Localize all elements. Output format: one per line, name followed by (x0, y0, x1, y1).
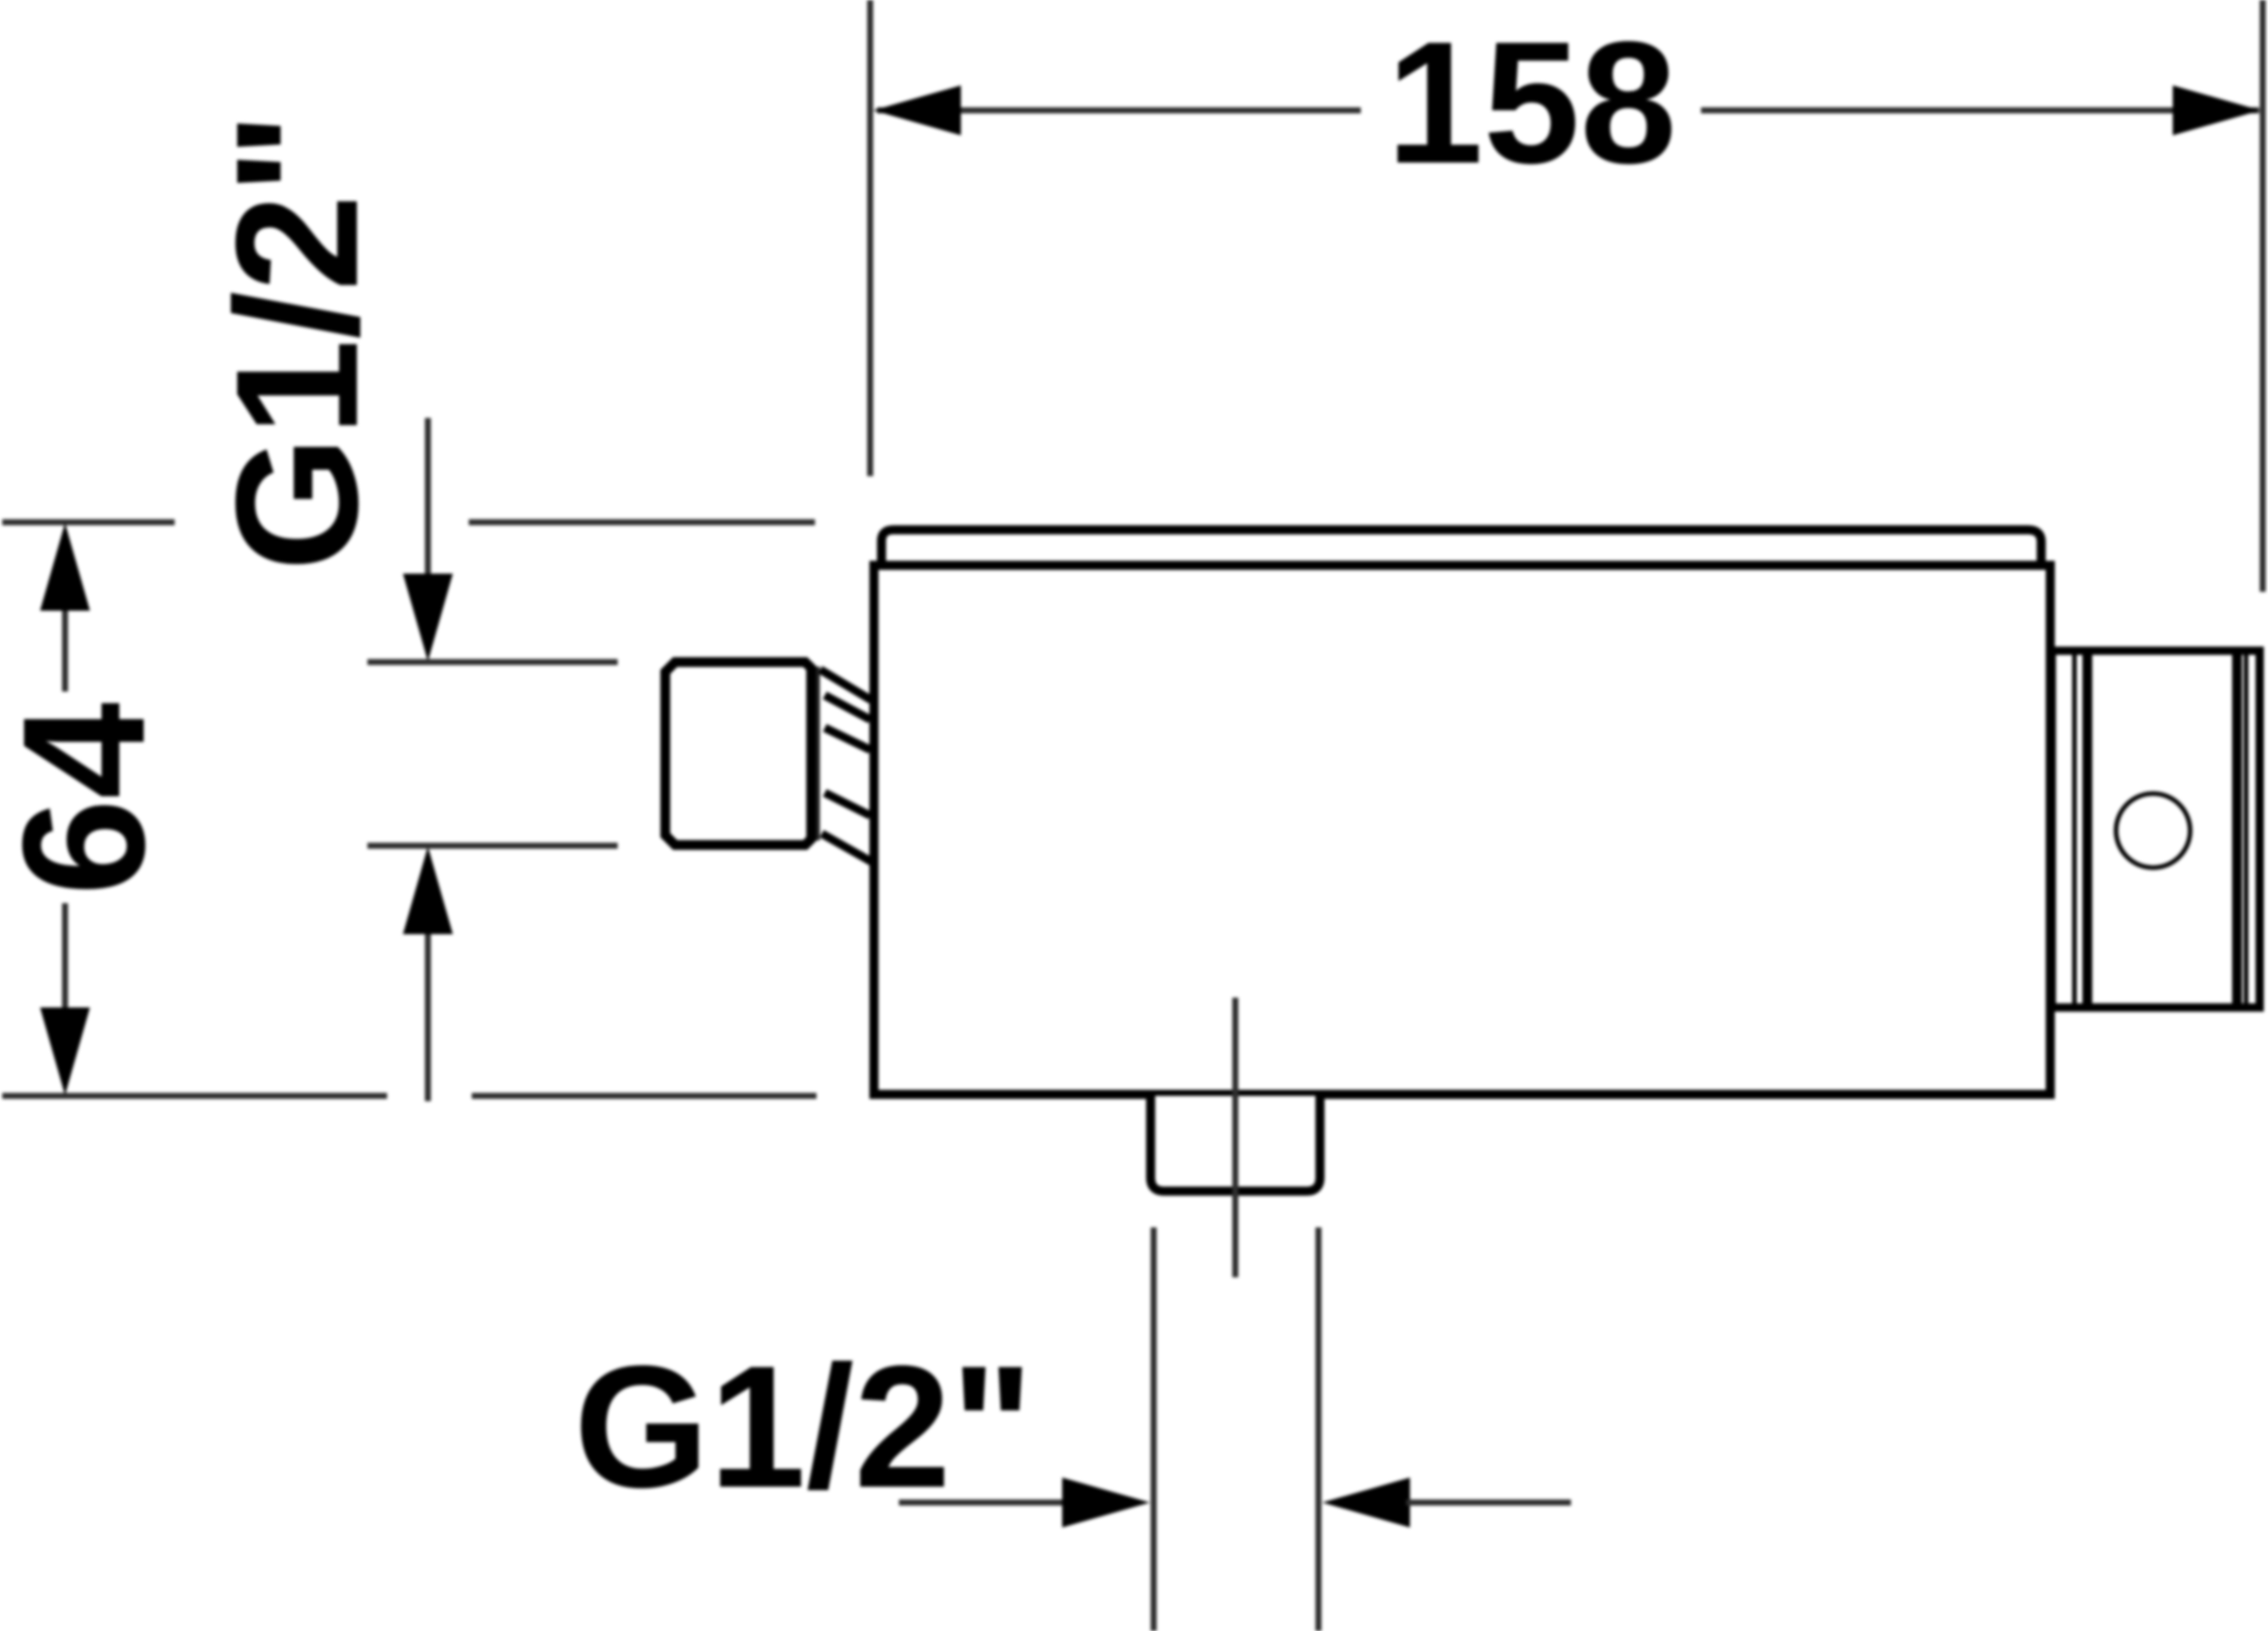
bottom G1/2 left extension line (1151, 1227, 1157, 1631)
dim 64 bottom arrowhead (40, 1007, 90, 1095)
dim 158 right arrowhead (2173, 85, 2260, 135)
outlet stub (1151, 1096, 1320, 1191)
dim 64 top extension line right segment (469, 519, 815, 525)
bottom G1/2 left arrowhead (1062, 1478, 1150, 1527)
outlet centerline (1232, 998, 1238, 1277)
svg-text:G1/2": G1/2" (200, 112, 394, 571)
dim 158 line right segment (1701, 107, 2259, 113)
svg-text:64: 64 (0, 702, 181, 896)
left G1/2 dim line upper segment (425, 418, 431, 578)
knob bottom extension line (367, 843, 618, 849)
svg-text:158: 158 (1387, 5, 1677, 200)
wall bracket outer rectangle (2052, 651, 2260, 1007)
knob outline (665, 662, 811, 845)
wall bracket right thick line (2232, 655, 2242, 1004)
knob top extension line (367, 659, 618, 665)
dim 64 bottom extension line left segment (2, 1093, 387, 1099)
bottom G1/2 right extension line (1315, 1227, 1321, 1631)
wall bracket right thin line (2244, 655, 2248, 1004)
wall bracket screw hole circle (2116, 794, 2190, 868)
thread rung 3 (825, 728, 870, 750)
knob collar thin line (816, 667, 820, 840)
svg-text:G1/2": G1/2" (574, 1329, 1033, 1524)
thread bottom diagonal (822, 834, 874, 863)
bottom G1/2 right arrowhead (1322, 1478, 1410, 1527)
bottom G1/2 right dim line (1406, 1499, 1571, 1506)
dim 158 left arrowhead (873, 85, 961, 135)
left G1/2 up arrowhead (403, 846, 453, 934)
body lid outline (881, 530, 2041, 567)
wall bracket left thick line (2083, 655, 2093, 1004)
dim 64 top extension line left segment (2, 519, 175, 525)
dim 64 line lower segment (62, 903, 68, 1051)
dim 64 line upper segment (62, 567, 68, 692)
dim 64 top arrowhead (40, 523, 90, 611)
main body rectangle (874, 565, 2050, 1094)
thread top diagonal (820, 670, 871, 700)
dim 158 right extension line (2260, 0, 2266, 592)
left G1/2 down arrowhead (403, 574, 453, 661)
thread rung 4 (825, 793, 870, 815)
thread rung 2 (825, 695, 870, 720)
dim 64 bottom extension line right segment (472, 1093, 816, 1099)
dim 158 left extension line (867, 0, 873, 476)
wall bracket left thin line (2072, 655, 2077, 1004)
dim 158 line left segment (877, 107, 1361, 113)
bottom G1/2 left dim line (899, 1499, 1066, 1506)
left G1/2 dim line lower segment (425, 930, 431, 1101)
